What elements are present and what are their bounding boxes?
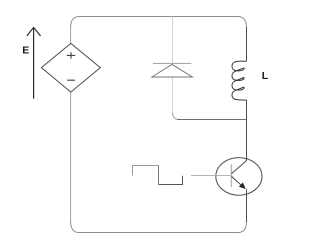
svg-text:L: L xyxy=(262,70,269,82)
svg-text:E: E xyxy=(22,44,29,56)
